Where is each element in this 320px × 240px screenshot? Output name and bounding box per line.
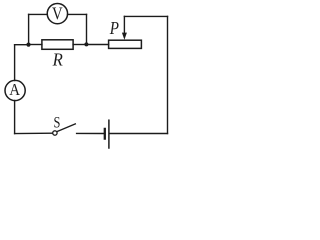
node B junction dot [84,42,88,46]
wire switch to battery [77,132,104,134]
voltmeter U1 [47,3,67,23]
potentiometer P track [109,40,142,48]
wire battery to bottom-right corner [110,133,168,135]
battery BT1 positive plate (long thin) [108,120,110,148]
wire node A to resistor R [29,44,42,46]
svg-text:V: V [52,4,63,24]
battery BT1 negative plate (short thick) [104,129,106,139]
svg-text:P: P [109,18,119,38]
wire node B to potentiometer [86,44,108,46]
wire right frame vertical [167,16,169,133]
wire resistor R to node B [73,44,86,46]
wire vertical down to node B [86,14,88,44]
resistor R body [42,40,73,50]
svg-text:A: A [9,80,20,99]
wire node A to left frame corner [15,44,29,46]
wire ammeter down to bottom-left corner [14,101,16,134]
potentiometer P wiper arrowhead [122,33,127,40]
ammeter U2 [5,80,25,100]
wire voltmeter right to corner [68,13,87,15]
svg-text:S: S [54,115,61,132]
potentiometer P wiper stem [123,16,125,34]
wire top-left horizontal to voltmeter [29,13,48,15]
wire vertical down to node A [28,14,30,44]
svg-text:R: R [52,50,63,70]
wire left frame down to ammeter [14,45,16,81]
node A junction dot [26,43,30,47]
wire top-right horizontal to wiper [124,15,167,17]
switch S pivot contact [53,131,57,135]
switch S blade [57,124,75,132]
wire bottom-left to switch [15,132,53,134]
